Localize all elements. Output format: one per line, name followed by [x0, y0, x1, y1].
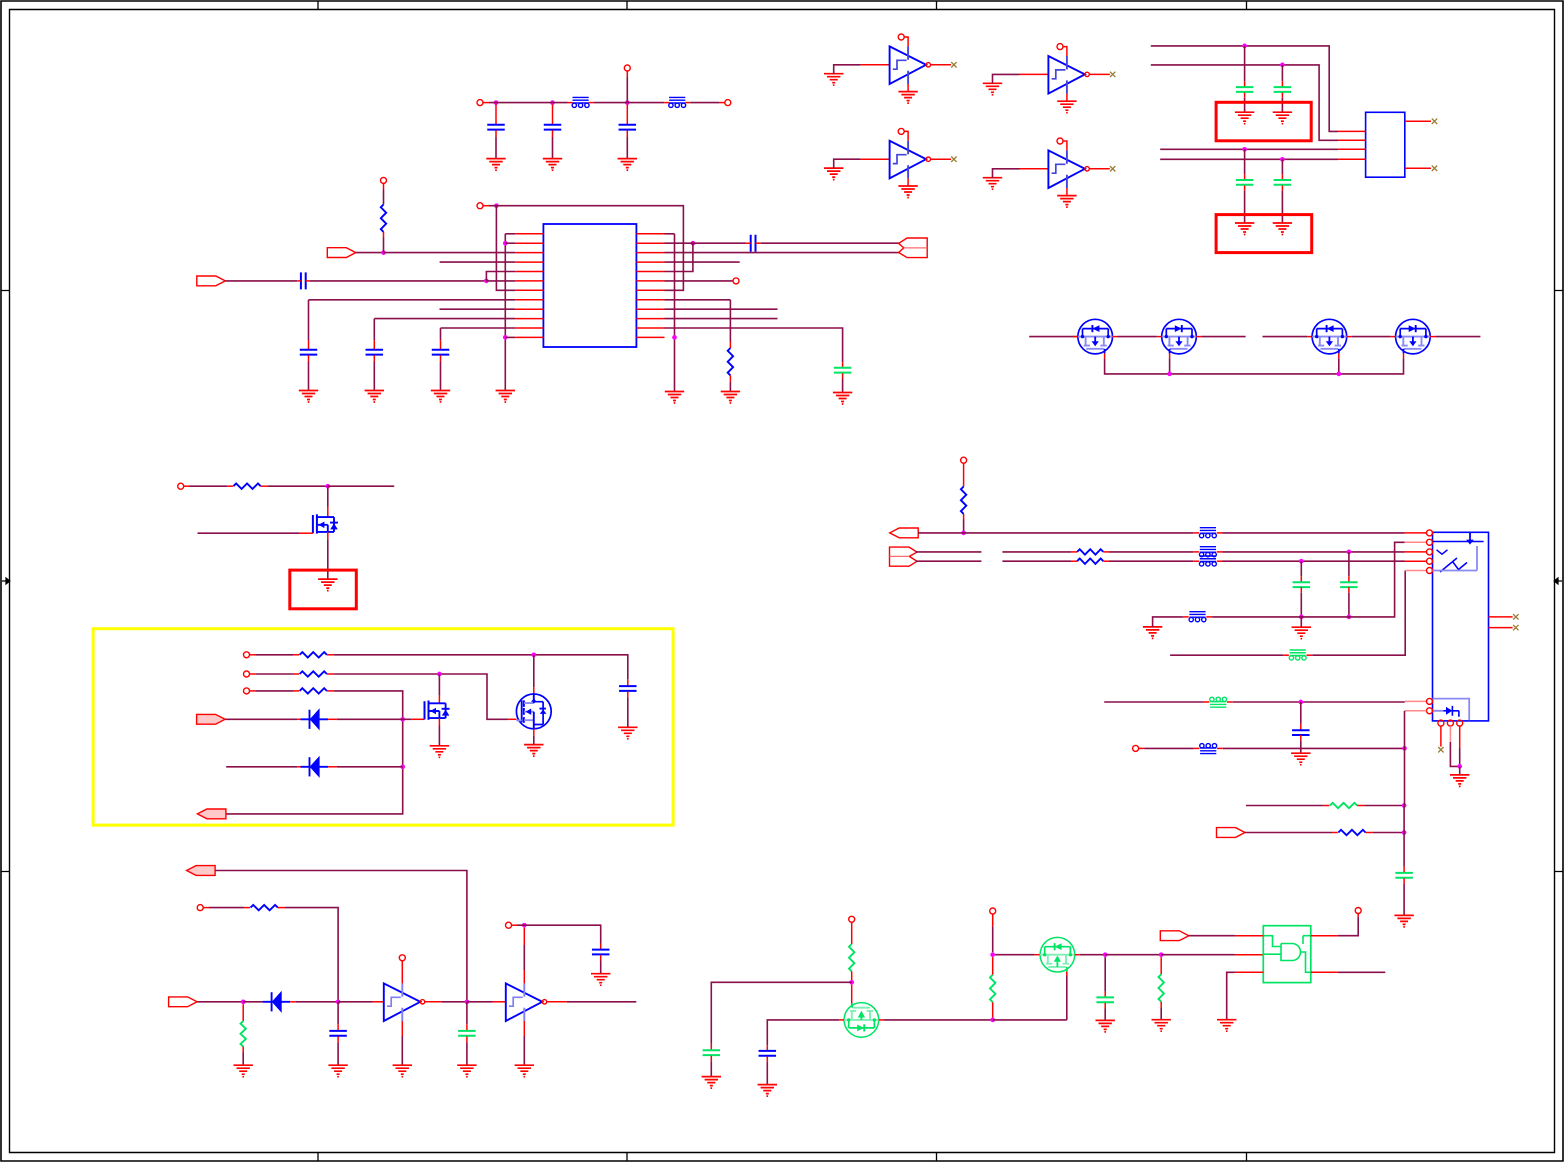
resistor R9 — [1330, 803, 1357, 808]
ground at U2B input — [983, 83, 1002, 95]
cap C19 lead bottom — [766, 1056, 768, 1062]
junction J20 — [400, 717, 405, 722]
fet Q5 gate stub — [300, 532, 313, 534]
capacitor C12 — [1236, 180, 1254, 185]
fet Q3 stub right — [1347, 336, 1352, 338]
capacitor C7 — [432, 350, 450, 355]
resistor R4 lead right — [278, 907, 285, 909]
pin stub P9 — [250, 673, 256, 675]
no-connect U2C — [951, 157, 956, 162]
ferrite bead FB1 — [572, 97, 589, 107]
fet Q5 drain stub — [327, 507, 329, 518]
capacitor C3 — [619, 125, 637, 130]
U2C input stub — [861, 158, 890, 160]
port arrow PA5 — [197, 714, 226, 724]
ground under C7 — [431, 391, 450, 403]
wire P8 to res — [255, 654, 293, 656]
wire Q3-Q4 — [1352, 336, 1391, 338]
wire arrow PA2 out — [225, 280, 297, 282]
ground under C17 — [591, 974, 610, 986]
pin stub P11 — [203, 907, 209, 909]
bead FB7 stub right — [1307, 654, 1313, 656]
resistor R5 — [241, 1021, 246, 1046]
AND U4 pin1 stub — [1235, 935, 1263, 937]
connector CN1 left pins — [1338, 131, 1366, 159]
resistor R7 — [990, 975, 995, 1002]
wire C14 to ground — [627, 697, 629, 727]
cap C22 lead top — [1348, 576, 1350, 581]
wire net5 — [1151, 46, 1338, 131]
capacitor C23 — [1293, 582, 1311, 587]
wire P10 to res — [255, 690, 293, 692]
cap C8 stub left — [746, 242, 751, 244]
AND U4 pin5 stub — [1311, 935, 1338, 937]
wire net7 — [1160, 148, 1338, 150]
no-connect U2A — [951, 62, 956, 67]
bead FB4 stub right — [1217, 551, 1223, 553]
connector CN2 body — [1433, 532, 1489, 721]
port arrow PA7 — [169, 997, 198, 1007]
resistor R9 lead right — [1357, 805, 1364, 807]
ground under C24 — [1291, 753, 1310, 765]
cap C7 lead bottom — [440, 355, 442, 361]
ground under R5 — [234, 1065, 253, 1077]
pin stub P3 — [626, 71, 628, 77]
wire J28 to Q9 — [995, 954, 1035, 956]
wire C10 drop — [1244, 46, 1246, 81]
cap C13 lead top — [1281, 174, 1283, 179]
sheet border right arrow — [1554, 578, 1562, 584]
power pin U2B — [1057, 44, 1063, 50]
wire net4 top — [489, 206, 683, 291]
wire D1 in — [225, 718, 297, 720]
wire Q6 gate — [403, 718, 412, 720]
U2A ground lead — [907, 84, 909, 92]
bead FB7 stub left — [1283, 654, 1289, 656]
resistor R3 lead right — [261, 485, 268, 487]
power pin U2D — [1057, 138, 1063, 144]
ground under C11 — [1273, 112, 1292, 124]
diode D3 — [263, 992, 291, 1012]
highlight yellow box — [93, 629, 673, 825]
U3B output stub — [547, 1001, 567, 1003]
power pin U2C — [898, 128, 904, 134]
cap C21 lead top — [1403, 867, 1405, 873]
junction J7 — [381, 250, 386, 255]
schmitt inverter U3A — [384, 983, 425, 1021]
res lead left P8 — [293, 654, 299, 656]
junction J38 — [1298, 700, 1303, 705]
wire Q7 drain drop — [533, 655, 535, 687]
wire row11 right — [665, 328, 843, 362]
res lead right P8 — [327, 654, 334, 656]
CN2 left pin circle 6 — [1427, 698, 1433, 704]
ground GP3 — [1450, 775, 1469, 787]
connector CN1 body — [1366, 112, 1405, 177]
U2D input stub — [1020, 168, 1049, 170]
port arrow PA8 — [1160, 931, 1189, 941]
wire Q6 drain drop — [438, 674, 440, 696]
wire R4 in — [209, 907, 244, 909]
wire arrow PA1 out — [356, 252, 384, 254]
wire R1 top — [383, 190, 385, 205]
cap C3 lead top — [626, 105, 628, 125]
mounting red box MH1 — [1216, 102, 1311, 141]
capacitor C2 — [544, 125, 562, 130]
wire net6 — [1151, 65, 1338, 140]
junction J2 — [550, 100, 555, 105]
capacitor C18 — [703, 1050, 721, 1055]
bead FB4 stub left — [1193, 551, 1199, 553]
fet Q9 stub right — [1075, 954, 1080, 956]
ferrite bead FB7 — [1289, 650, 1306, 660]
wire net1 a — [489, 102, 568, 104]
wire U3B to ground — [523, 1036, 525, 1065]
ground under U3B — [515, 1065, 534, 1077]
ground under U2D — [1057, 196, 1076, 208]
ground under C9 — [833, 393, 852, 405]
ground GP1 — [1143, 627, 1162, 639]
junction J3 — [625, 100, 630, 105]
bead FB9 stub left — [1194, 747, 1200, 749]
capacitor C4 — [301, 272, 306, 289]
port arrow PA4 — [197, 809, 226, 819]
wire net row4 — [440, 261, 516, 263]
junction J4 — [494, 203, 499, 208]
bead FB2 stub right — [685, 102, 690, 104]
resistor R4 lead left — [244, 907, 250, 909]
wire C12 drop — [1244, 149, 1246, 174]
connector CN2 top internals — [1433, 533, 1484, 572]
wire C13 drop — [1281, 159, 1283, 174]
wire D2 out — [337, 766, 403, 768]
wire row8 right a — [665, 299, 731, 301]
resistor R7 lead top — [992, 957, 994, 975]
ground under C10 — [1235, 112, 1254, 124]
resistor R10 lead left — [1332, 832, 1338, 834]
AND gate U4 body — [1263, 926, 1311, 983]
power drop U3B red2 — [523, 970, 525, 983]
transistor Q5 — [313, 514, 338, 533]
resistor R6 lead top — [851, 922, 853, 944]
cap C19 lead top — [766, 1045, 768, 1050]
no-connect U2D — [1110, 166, 1115, 171]
wire row10 right — [665, 318, 778, 320]
resistor R13 lead right — [1103, 560, 1109, 562]
wire pin c down — [1459, 748, 1461, 766]
wire C11 drop — [1281, 65, 1283, 81]
ferrite bead FB6 — [1189, 612, 1206, 622]
wire row5 b — [1312, 571, 1405, 656]
wire Q6 source down — [438, 726, 440, 746]
wire net2 — [594, 102, 664, 104]
wire D1 out — [337, 718, 403, 720]
wire Q3 in — [1263, 336, 1308, 338]
wire cap C6 drop — [373, 319, 375, 341]
fet Q9 source stub — [1066, 969, 1068, 976]
wire row9 right — [665, 308, 778, 310]
ground under left bus — [496, 391, 515, 403]
capacitor C20 — [1096, 997, 1114, 1002]
ground under C13 — [1273, 223, 1292, 235]
pin stub P1 — [483, 102, 489, 104]
wire R3 in — [190, 485, 228, 487]
CN2 pin5 stub — [1405, 570, 1426, 572]
cap C4 stub right — [306, 280, 310, 282]
junction J14 — [1280, 157, 1285, 162]
wire R10 out — [1373, 832, 1404, 834]
wire row2 c — [1109, 551, 1193, 553]
port pin P8 — [244, 652, 250, 658]
wire to U3B — [467, 1001, 493, 1003]
no-connect CN2 a — [1438, 747, 1443, 752]
wire U3B out — [567, 1001, 637, 1003]
port pin P10 — [244, 688, 250, 694]
wire row3 b — [1002, 560, 1071, 562]
junction J19 — [437, 672, 442, 677]
wire C23 drop — [1300, 561, 1302, 576]
wire net12 — [226, 691, 403, 814]
fet Q7 drain stub — [533, 687, 535, 694]
resistor R1 lead bottom — [383, 232, 385, 238]
mounting red box MH3 — [290, 570, 357, 609]
resistor R13 lead left — [1071, 560, 1077, 562]
bead FB1 stub right — [589, 102, 594, 104]
CN2 bottom pin c stub — [1459, 726, 1461, 748]
wire P9 to res — [255, 673, 293, 675]
wire C16 to ground — [466, 1042, 468, 1065]
fet Q2 source stub — [1169, 353, 1171, 358]
no-connect CN1 pin a — [1432, 119, 1437, 124]
wire fet source rail — [1105, 358, 1404, 374]
wire row6 right — [665, 280, 734, 282]
cap C9 lead top — [842, 362, 844, 367]
wire C13 to ground — [1281, 191, 1283, 223]
wire C6 to ground — [373, 362, 375, 391]
cap C3 lead bottom — [626, 130, 628, 137]
wire C20 to ground — [1104, 1009, 1106, 1021]
wire net17 — [993, 1019, 1067, 1021]
junction J12 — [1280, 63, 1285, 68]
fet Q3 stub left — [1307, 336, 1312, 338]
U3A output stub — [425, 1001, 442, 1003]
wire U3A out — [441, 1001, 467, 1003]
diode D2 stub left — [297, 766, 300, 768]
ferrite bead FB5 — [1199, 556, 1216, 566]
ground under right bus — [665, 392, 684, 404]
fet Q4 stub right — [1430, 336, 1435, 338]
resistor R11 lead top — [963, 463, 965, 486]
fet Q8 drain stub — [851, 985, 853, 1006]
ground in box MH3 — [318, 579, 337, 591]
port arrow PA1 — [327, 248, 356, 258]
IC U1 right pins 13-24 — [636, 234, 664, 338]
wire row3 d — [1223, 560, 1405, 562]
wire to U3A — [338, 1001, 372, 1003]
resistor R12 lead left — [1071, 551, 1077, 553]
power pin U2A — [898, 34, 904, 40]
junction J18 — [531, 652, 536, 657]
port pin P12 — [849, 916, 855, 922]
wire PA7 out — [197, 1001, 243, 1003]
wire Q5 drain drop — [327, 486, 329, 506]
cap C2 lead top — [552, 105, 554, 125]
junction J32 — [1402, 830, 1407, 835]
capacitor C9 — [834, 368, 852, 373]
resistor R11 — [961, 487, 966, 514]
ground under C21 — [1394, 915, 1413, 927]
port pin P4 — [477, 203, 483, 209]
junction J17 — [325, 484, 330, 489]
wire row2 d — [1223, 551, 1405, 553]
junction J26 — [849, 980, 854, 985]
CN2 bottom pin b stub — [1449, 726, 1451, 742]
pin stub P5 — [383, 183, 385, 189]
wire P13 down — [992, 926, 994, 952]
ground under C5 — [299, 391, 318, 403]
cap C23 lead top — [1300, 576, 1302, 581]
wire Q9 out — [1080, 954, 1106, 956]
resistor R8 lead bottom — [1160, 1002, 1162, 1008]
cap C20 lead top — [1104, 992, 1106, 997]
resistor RP9 — [300, 671, 327, 676]
cap C17 lead bottom — [600, 955, 602, 960]
cap C11 lead bottom — [1281, 93, 1283, 98]
resistor R10 lead right — [1366, 832, 1373, 834]
junction J28 — [990, 952, 995, 957]
pin stub P10 — [250, 690, 256, 692]
wire C24 to ground — [1300, 741, 1302, 753]
wire C1 to ground — [495, 137, 497, 158]
wire C2 to ground — [552, 137, 554, 158]
diode D1 — [301, 710, 329, 730]
ground under U3A — [393, 1065, 412, 1077]
resistor R8 — [1159, 974, 1164, 1001]
junction J31 — [1402, 803, 1407, 808]
port arrow PA2 — [197, 276, 226, 286]
wire R8 to ground — [1160, 1008, 1162, 1019]
wire PA9 out — [1245, 832, 1332, 834]
cap C11 lead top — [1281, 81, 1283, 86]
diode D2 stub right — [328, 766, 337, 768]
wire U3A to ground — [401, 1036, 403, 1065]
U2A output stub — [931, 64, 952, 66]
wire D2 in — [226, 766, 297, 768]
wire row1 a — [918, 532, 1193, 534]
ground under R2 — [721, 392, 740, 404]
wire PA8 out — [1189, 935, 1235, 937]
schmitt inverter U3B — [506, 983, 547, 1021]
capacitor C16 — [458, 1031, 476, 1036]
pin stub P14 — [1357, 914, 1359, 917]
wire Q2 out — [1201, 336, 1245, 338]
wire C19 to ground — [766, 1062, 768, 1084]
cap C20 lead bottom — [1104, 1003, 1106, 1009]
mounting red box MH2 — [1216, 215, 1312, 253]
diode D2 — [301, 757, 329, 777]
wire Q7 source down — [533, 736, 535, 745]
U3A input stub — [373, 1001, 384, 1003]
resistor R2 — [728, 348, 733, 375]
wire Q1-Q2 — [1118, 336, 1157, 338]
no-connect CN1 pin b — [1432, 166, 1437, 171]
CN2 pin3 stub — [1405, 551, 1427, 553]
wire R4 out — [285, 908, 338, 1002]
resistor R5 lead top — [242, 1004, 244, 1021]
wire pin2 left link — [505, 242, 515, 244]
wire Q8 out — [884, 1019, 993, 1021]
bead FB3 stub left — [1193, 532, 1199, 534]
transistor Q2 — [1162, 319, 1197, 354]
diode D3 stub right — [290, 1001, 295, 1003]
transistor Q6 — [425, 701, 450, 720]
CN2 bottom pin circle a — [1438, 720, 1444, 726]
wire U2C input — [834, 159, 861, 168]
power lead U2B — [1063, 47, 1067, 56]
no-connect U2B — [1110, 72, 1115, 77]
wire Q2 source drop — [1169, 358, 1171, 374]
CN2 left pin circle 4 — [1427, 558, 1433, 564]
cap C9 lead bottom — [842, 373, 844, 378]
port pin P6 — [733, 278, 739, 284]
capacitor C13 — [1274, 180, 1292, 185]
port pin P9 — [244, 671, 250, 677]
ground under C12 — [1235, 223, 1254, 235]
pin stub P8 — [250, 654, 256, 656]
diode D1 stub right — [328, 718, 337, 720]
wire net19 — [1161, 954, 1235, 956]
no-connect CN2 right b — [1513, 625, 1518, 630]
CN2 pin6 stub — [1405, 700, 1427, 702]
U2A input stub — [861, 64, 890, 66]
ground under C16 — [457, 1065, 476, 1077]
wire R5 to ground — [242, 1053, 244, 1065]
wire R9 in — [1246, 805, 1324, 807]
resistor R13 — [1077, 559, 1103, 564]
transistor Q9 — [1040, 937, 1075, 972]
wire pin1 left link — [505, 233, 515, 235]
cap C6 lead top — [373, 340, 375, 349]
U3B input stub — [493, 1001, 506, 1003]
CN2 pin4 stub — [1405, 560, 1427, 562]
wire R11 down — [963, 520, 965, 533]
port double arrow PA11 — [890, 547, 918, 566]
resistor R11 lead bottom — [963, 514, 965, 520]
wire net13 — [215, 871, 467, 1002]
wire C10 to ground — [1244, 98, 1246, 112]
junction J29 — [1103, 952, 1108, 957]
junction J25 — [522, 923, 527, 928]
wire R1 bottom — [383, 238, 385, 253]
wire net row11 left — [441, 327, 516, 329]
capacitor C5 — [300, 350, 318, 355]
wire row6 to pin — [486, 280, 515, 282]
U2D output stub — [1089, 168, 1110, 170]
wire GP2 drop — [1300, 617, 1302, 627]
port pin P2 — [725, 100, 731, 106]
wire row2 b — [1002, 551, 1071, 553]
pin stub P13 — [992, 914, 994, 926]
fet Q1 source stub — [1104, 353, 1106, 358]
fet Q1 stub right — [1113, 336, 1118, 338]
transistor Q7 — [516, 694, 551, 729]
cap C12 lead bottom — [1244, 186, 1246, 191]
ferrite bead FB8 — [1210, 697, 1227, 707]
wire C18 to ground — [710, 1061, 712, 1076]
cap C15 lead bottom — [337, 1036, 339, 1042]
port pin P3 — [624, 65, 630, 71]
res lead right P10 — [327, 690, 334, 692]
